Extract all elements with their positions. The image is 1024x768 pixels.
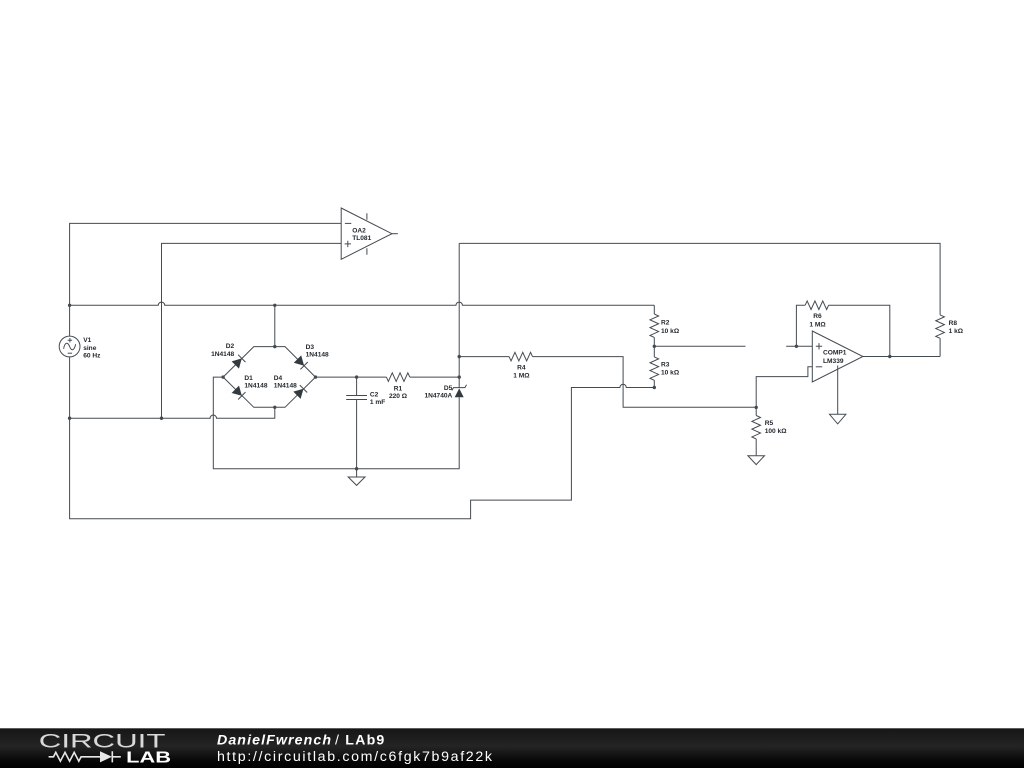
diode D1 arrow (232, 386, 242, 396)
svg-text:D1: D1 (244, 375, 253, 382)
svg-text:DanielFwrench: DanielFwrench (217, 732, 331, 748)
svg-text:1 mF: 1 mF (370, 399, 385, 406)
svg-text:R1: R1 (394, 386, 403, 393)
svg-text:OA2: OA2 (352, 227, 366, 234)
wire R3 leads (653, 346, 655, 387)
svg-text:sine: sine (83, 345, 97, 352)
svg-text:D5: D5 (444, 385, 453, 392)
wire OA2 - input (70, 223, 342, 305)
wire COMP1 output (863, 356, 940, 358)
svg-text:R4: R4 (517, 365, 526, 372)
svg-text:1 MΩ: 1 MΩ (809, 322, 826, 329)
svg-text:R8: R8 (949, 320, 958, 327)
svg-text:1N4740A: 1N4740A (424, 392, 452, 399)
V1 plus mark (68, 338, 72, 342)
wire net V1+ / OA2- / bridge-top / R2-top (horizontal y=305.3 with hops) (70, 302, 655, 305)
ground below R5 (748, 456, 765, 465)
wire OA2 + input (162, 243, 342, 418)
diode D2 arrow (232, 358, 242, 368)
wire big loop R3-bottom to V1-bottom (70, 384, 655, 518)
OA2 minus sign (345, 222, 351, 224)
wire D5 vertical from top corner (458, 243, 460, 387)
diode D3 arrow (294, 355, 304, 365)
svg-text:220 Ω: 220 Ω (389, 393, 408, 400)
resistor R5 zigzag (752, 416, 761, 439)
svg-text:LAB: LAB (126, 749, 171, 766)
wire COMP1 ground stem (837, 366, 839, 415)
voltage source V1 circle (59, 336, 80, 357)
wire R5 leads (755, 407, 757, 455)
zener D5 cathode bar (452, 385, 467, 391)
COMP1 minus sign (816, 366, 822, 368)
diode D3 cathode bar (300, 362, 307, 369)
OA2 plus sign (345, 241, 351, 247)
svg-text:TL081: TL081 (352, 235, 371, 242)
wire COMP1 - staircase to R5 node (756, 367, 812, 408)
svg-text:1N4148: 1N4148 (211, 351, 234, 358)
resistor R1 zigzag (386, 373, 409, 382)
zener D5 arrow (455, 388, 464, 397)
svg-text:R6: R6 (813, 313, 822, 320)
svg-text:1N4148: 1N4148 (306, 352, 329, 359)
V1 minus mark (68, 352, 72, 354)
svg-text:V1: V1 (83, 337, 91, 344)
diode D2 cathode bar (238, 355, 245, 362)
svg-text:C2: C2 (370, 392, 379, 399)
resistor R3 zigzag (650, 357, 659, 380)
COMP1 plus sign (816, 343, 822, 349)
svg-text:100 kΩ: 100 kΩ (765, 428, 788, 435)
svg-text:R2: R2 (661, 320, 670, 327)
wire COMP1 + input (786, 345, 812, 347)
svg-text:LM339: LM339 (823, 358, 844, 365)
svg-text:1 kΩ: 1 kΩ (949, 328, 964, 335)
bridge rectifier octagon body (223, 347, 315, 408)
capacitor C2 plates (346, 396, 367, 400)
wire R4 net (459, 357, 756, 408)
svg-text:R5: R5 (765, 420, 774, 427)
resistor R2 zigzag (650, 314, 659, 337)
comparator COMP1 triangle (812, 331, 863, 382)
wire R2 leads (653, 305, 655, 346)
ground below COMP1 (830, 414, 846, 424)
ground below C2 rail (348, 477, 365, 485)
resistor R4 zigzag (509, 352, 532, 361)
wire top long net to R8 (459, 243, 940, 356)
OA2 output stub (392, 233, 398, 235)
svg-text:1N4148: 1N4148 (274, 382, 297, 389)
svg-text:10 kΩ: 10 kΩ (661, 328, 680, 335)
footer bar (0, 728, 1024, 768)
wire bridge right to R1 to D5 node (316, 376, 460, 378)
svg-text:R3: R3 (661, 361, 670, 368)
wire stub from R2/R3 junction (654, 345, 745, 347)
svg-text:60 Hz: 60 Hz (83, 353, 101, 360)
svg-text:1N4148: 1N4148 (244, 382, 267, 389)
svg-text:COMP1: COMP1 (823, 350, 847, 357)
resistor R6 zigzag (805, 301, 828, 310)
svg-text:10 kΩ: 10 kΩ (661, 370, 680, 377)
wire bottom net y=418 (70, 407, 275, 418)
logo resistor-diode symbol (49, 751, 121, 762)
wire bridge left down to bottom rail y=469 (213, 377, 459, 469)
diode D4 cathode bar (300, 385, 307, 392)
wire bridge top vertical (274, 305, 276, 346)
svg-text:D4: D4 (274, 375, 283, 382)
wire V1 leads (69, 305, 71, 418)
logo diode triangle (100, 751, 112, 762)
svg-text:D2: D2 (226, 343, 235, 350)
wire R6 left and right (796, 305, 889, 356)
junction node dots (68, 304, 71, 307)
OA2 power ticks (366, 213, 368, 255)
resistor R8 zigzag (936, 315, 945, 338)
svg-text:http://circuitlab.com/c6fgk7b9: http://circuitlab.com/c6fgk7b9af22k (217, 749, 493, 765)
op-amp OA2 triangle (341, 208, 392, 259)
svg-text:/: / (335, 732, 339, 748)
diode D1 cathode bar (238, 392, 245, 399)
svg-text:1 MΩ: 1 MΩ (513, 372, 530, 379)
V1 sine wave (64, 343, 76, 350)
diode D4 arrow (293, 389, 303, 399)
svg-text:D3: D3 (306, 344, 315, 351)
svg-text:LAb9: LAb9 (345, 732, 384, 748)
wire C2 leads and ground stem (356, 377, 358, 477)
